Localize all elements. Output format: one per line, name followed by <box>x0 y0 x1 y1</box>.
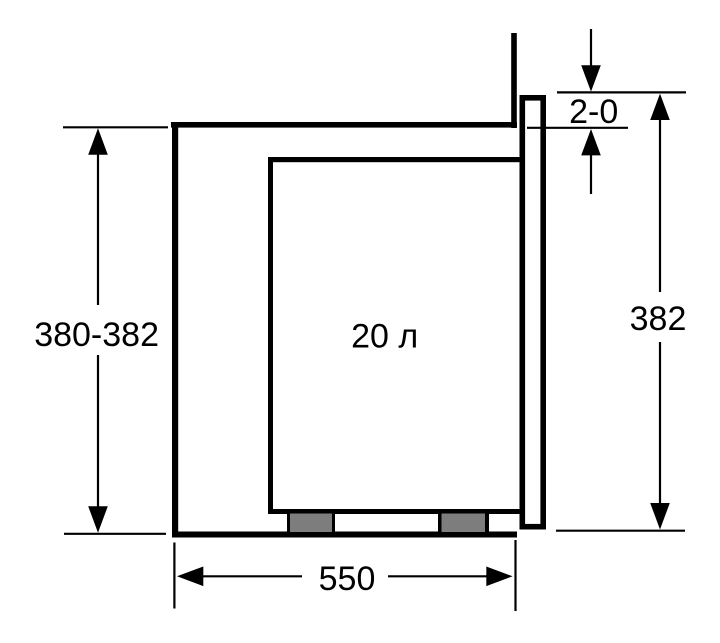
dim 380-382 upper arrowhead <box>88 128 108 155</box>
front frame bar <box>522 98 543 527</box>
dim 2-0 upper arrowhead <box>581 65 601 91</box>
right foot gray pad <box>442 514 486 533</box>
svg-text:382: 382 <box>630 300 687 338</box>
dim 382 bottom extension line <box>556 530 685 532</box>
shared top extension line (2-0 and 382) <box>557 91 686 93</box>
dim 550 left extension line <box>173 543 175 609</box>
dim 550 right line <box>388 575 487 577</box>
dim 382 upper line <box>659 118 661 292</box>
dim 380-382 lower arrowhead <box>88 506 108 533</box>
dim 380-382 upper line <box>97 152 99 305</box>
left foot right border <box>332 514 335 533</box>
niche left wall <box>172 122 178 538</box>
dim 382 lower arrowhead <box>650 503 670 530</box>
dim 550 right extension line <box>514 540 516 611</box>
svg-text:20 л: 20 л <box>351 318 418 356</box>
dim 380-382 top extension line <box>63 126 168 128</box>
dim 380-382 lower line <box>97 355 99 509</box>
microwave body left wall <box>268 157 273 514</box>
dim 2-0 upper arrow line <box>590 29 592 67</box>
dim 382 upper arrowhead <box>650 94 670 120</box>
dim 2-0 lower arrow line <box>590 154 592 194</box>
niche bottom wall <box>172 532 517 538</box>
dim 550 left arrowhead <box>177 567 203 587</box>
microwave body bottom wall <box>268 509 520 514</box>
dim 550 left line <box>202 575 302 577</box>
svg-text:550: 550 <box>319 560 376 598</box>
microwave body top wall <box>268 157 522 162</box>
left foot left border <box>287 514 290 533</box>
right foot left border <box>438 514 442 533</box>
dim 2-0 lower arrowhead <box>581 129 601 155</box>
dim 380-382 bottom extension line <box>64 533 166 535</box>
svg-text:2-0: 2-0 <box>569 93 618 131</box>
niche rear-top vertical wall <box>511 33 517 128</box>
niche top wall <box>171 122 517 128</box>
left foot gray pad <box>290 514 332 533</box>
dim 382 lower line <box>659 342 661 505</box>
dim 550 right arrowhead <box>486 567 512 587</box>
svg-text:380-382: 380-382 <box>34 316 159 354</box>
dim 2-0 bottom measure line <box>527 127 628 129</box>
right foot right border <box>485 514 489 533</box>
